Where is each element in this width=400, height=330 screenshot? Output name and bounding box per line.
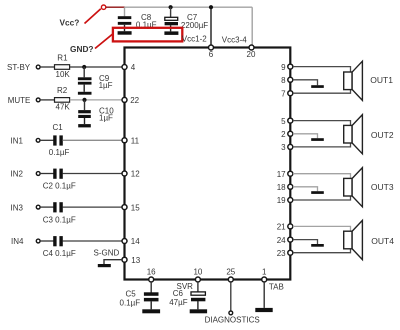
pin 9 [281,63,293,72]
svg-text:C4 0.1µF: C4 0.1µF [43,249,76,258]
label IN3 [11,203,24,212]
wire TAB ground lead [263,282,265,308]
svg-text:20: 20 [247,50,256,59]
svg-text:DIAGNOSTICS: DIAGNOSTICS [205,316,260,325]
label C5 [120,289,141,307]
svg-text:Vcc?: Vcc? [60,17,80,27]
ground C6 [190,309,207,313]
pin 2 [281,130,293,139]
wire pin 21 to speaker OUT4 gray [293,226,351,231]
svg-text:Vcc1-2: Vcc1-2 [182,35,207,44]
annotation GND? pointer line [95,34,113,49]
pin 3 [281,143,293,152]
wire pin 18 ground stub gray [293,187,318,191]
wire Vcc rail gray [125,6,253,8]
svg-text:R1: R1 [57,53,68,62]
svg-text:0.1µF: 0.1µF [120,298,141,307]
svg-text:2200µF: 2200µF [181,21,208,30]
svg-text:10: 10 [193,267,202,276]
svg-text:C3 0.1µF: C3 0.1µF [43,215,76,224]
pin 25 [226,267,235,282]
wire ST-BY to R1 [40,66,54,68]
wire pin 23 to speaker OUT4 [293,249,351,253]
label C10 [99,106,114,122]
label C8 [136,13,157,29]
pin 22 [122,96,140,105]
wire IN3 to C3 [40,206,53,208]
wire pin 17 to speaker OUT3 gray [293,174,351,179]
wire pin 7 to speaker OUT1 [293,90,351,94]
ground pin 2 [311,138,324,141]
node Vcc input terminal (red circled) [101,5,105,9]
svg-text:11: 11 [131,137,140,146]
wire pin 9 to speaker OUT1 [293,67,351,72]
label C6 [169,289,188,307]
svg-text:IN3: IN3 [11,203,24,212]
pin 20 [247,45,256,59]
svg-text:7: 7 [281,89,286,98]
IC U1 body [125,48,291,280]
wire to pin 6 [210,7,212,45]
node ST-BY terminal [36,65,40,69]
svg-text:47µF: 47µF [169,298,188,307]
capacitor C3 [53,202,63,212]
pin 1 [262,267,267,282]
resistor R2 [55,98,70,103]
capacitor C10 [78,110,91,124]
pin 8 [281,76,293,85]
resistor R1 [55,65,70,70]
wire C6 lead [197,282,199,292]
annotation Vcc? pointer line [85,9,101,24]
label 10K [56,70,71,79]
svg-text:17: 17 [277,170,286,179]
label 47K [56,103,71,112]
svg-text:MUTE: MUTE [8,96,31,105]
ground S-GND [98,264,111,267]
label OUT2 [371,130,394,140]
wire pin 8 ground stub [293,80,318,85]
label C7 [181,13,208,30]
svg-text:14: 14 [131,237,140,246]
svg-text:IN2: IN2 [11,170,24,179]
svg-text:3: 3 [281,143,286,152]
label C1 [53,123,64,132]
svg-text:12: 12 [131,170,140,179]
node MUTE terminal [36,98,40,102]
wire diagnostics lead [230,282,232,311]
wire pin 2 ground stub gray [293,134,318,138]
svg-text:1µF: 1µF [99,81,113,90]
capacitor C4 [53,236,63,246]
pin 15 [122,203,140,212]
svg-text:OUT3: OUT3 [371,182,394,192]
pin 18 [277,183,293,192]
ground pin 8 [311,85,324,88]
label SVR [177,282,194,291]
wire R1 to pin 4 [70,66,123,68]
node junction C7 [169,5,173,9]
label C9 [99,74,113,90]
label C3 value [43,215,76,224]
node IN3 terminal [36,205,40,209]
pin 13 [122,256,141,265]
wire pin 3 to speaker OUT2 [293,143,351,147]
wire IN1 to C1 [40,139,54,141]
svg-text:1µF: 1µF [99,113,113,122]
wire MUTE to R2 [40,99,54,101]
wire pin 24 ground stub [293,240,318,244]
pin 10 [193,267,202,282]
wire R2 to pin 22 gray [70,99,123,101]
wire to pin 20 gray [251,7,253,45]
svg-text:15: 15 [131,203,140,212]
svg-text:24: 24 [277,236,286,245]
svg-text:25: 25 [226,267,235,276]
pin 7 [281,89,293,98]
svg-text:21: 21 [277,223,286,232]
svg-text:GND?: GND? [70,44,94,54]
label DIAGNOSTICS [205,316,260,325]
ground pin 24 [311,244,324,247]
label R2 [57,86,68,95]
ground TAB [255,308,272,312]
capacitor C1 [53,135,63,145]
capacitor C7 electrolytic [165,17,178,31]
wire IN4 to C4 [40,240,53,242]
ground C10 [78,124,91,127]
pin 23 [277,249,293,258]
wire C8 top lead [124,7,126,16]
node IN4 terminal [36,239,40,243]
pin 12 [122,170,140,179]
wire C1 to pin 11 [63,139,123,141]
label OUT1 [370,75,393,85]
capacitor C8 [118,16,132,31]
svg-text:OUT2: OUT2 [371,130,394,140]
svg-text:OUT4: OUT4 [371,236,394,246]
speaker OUT3 [344,168,363,207]
label Vcc3-4 [222,35,247,44]
label OUT3 [371,182,394,192]
svg-text:2: 2 [281,130,286,139]
label 0.1uF C1 [49,148,70,157]
speaker OUT4 [344,220,363,259]
wire C5 lead [150,282,152,293]
pin 4 [122,63,136,72]
pin 17 [277,170,293,179]
wire red Vcc segment [106,6,125,8]
wire C9 lead [83,67,85,77]
svg-text:10K: 10K [56,70,71,79]
wire pin 5 to speaker OUT2 [293,121,351,126]
label IN4 [11,237,24,246]
wire C10 lead [84,100,86,110]
svg-text:8: 8 [281,76,286,85]
node junction pin6 branch [209,5,213,9]
ground C9 [78,92,92,95]
wire C3 to pin 15 [63,206,123,208]
svg-text:13: 13 [131,256,140,265]
ground pin 18 [311,191,324,194]
svg-text:C1: C1 [53,123,64,132]
label IN1 [11,137,24,146]
svg-text:C2 0.1µF: C2 0.1µF [43,182,76,191]
wire C7 top lead [170,7,172,17]
capacitor C6 electrolytic [191,292,205,309]
label C2 value [43,182,76,191]
label S-GND [94,249,120,258]
label OUT4 [371,236,394,246]
ground C7 [164,31,178,35]
svg-text:IN1: IN1 [11,137,24,146]
svg-text:1: 1 [262,267,267,276]
svg-text:22: 22 [130,96,139,105]
wire pin 13 to S-GND [104,260,122,264]
ground C8 [118,31,132,35]
pin 19 [277,196,293,205]
annotation GND? label [70,44,94,54]
pin 21 [277,223,293,232]
node junction R1/C9 [82,65,86,69]
node IN2 terminal [36,172,40,176]
svg-text:TAB: TAB [269,283,284,292]
annotation Vcc? label [60,17,80,27]
svg-text:0.1µF: 0.1µF [49,148,70,157]
svg-text:4: 4 [131,63,136,72]
capacitor C2 [53,169,63,179]
svg-text:ST-BY: ST-BY [7,63,31,72]
wire IN2 to C2 [40,173,53,175]
speaker OUT2 [344,115,363,154]
svg-text:IN4: IN4 [11,237,24,246]
pin 11 [122,137,140,146]
svg-text:16: 16 [147,267,156,276]
svg-text:C5: C5 [126,289,137,298]
label MUTE [8,96,31,105]
annotation red box GND? [113,28,182,42]
svg-text:R2: R2 [57,86,68,95]
pin 24 [277,236,293,245]
node DIAGNOSTICS terminal [229,311,233,315]
label TAB [269,283,284,292]
label ST-BY [7,63,31,72]
svg-text:OUT1: OUT1 [370,75,393,85]
wire pin 19 to speaker OUT3 [293,196,351,200]
wire C2 to pin 12 [63,173,123,175]
pin 14 [122,237,140,246]
capacitor C9 [78,77,92,92]
pin 5 [281,117,293,126]
node IN1 terminal [36,138,40,142]
svg-text:19: 19 [277,196,286,205]
label R1 [57,53,68,62]
label C4 value [43,249,76,258]
label Vcc1-2 [182,35,207,44]
svg-text:47K: 47K [56,103,71,112]
capacitor C5 [144,292,159,309]
node junction R2/C10 [82,98,86,102]
wire C4 to pin 14 [63,240,123,242]
pin 6 [209,45,214,59]
svg-text:9: 9 [281,63,286,72]
svg-text:C6: C6 [173,289,184,298]
speaker OUT1 [344,61,363,100]
svg-text:6: 6 [209,50,214,59]
pin 16 [147,267,156,282]
svg-text:5: 5 [281,117,286,126]
svg-text:23: 23 [277,249,286,258]
label IN2 [11,170,24,179]
ground C5 [142,309,160,313]
svg-text:S-GND: S-GND [94,249,120,258]
svg-text:18: 18 [277,183,286,192]
svg-text:Vcc3-4: Vcc3-4 [222,35,247,44]
